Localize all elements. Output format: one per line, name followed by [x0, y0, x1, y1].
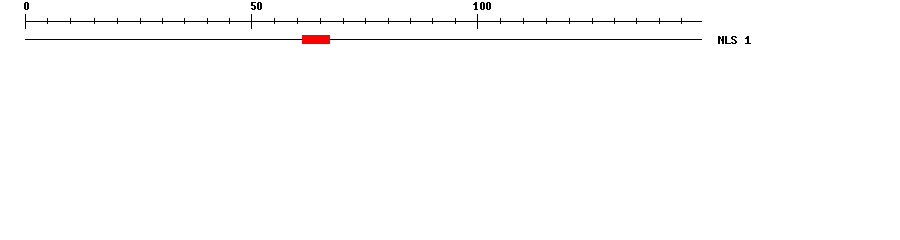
major tick 50 — [251, 14, 253, 29]
minor tick 25 — [140, 18, 142, 24]
minor tick 90 — [432, 18, 434, 24]
minor tick 70 — [343, 18, 345, 24]
minor tick 20 — [117, 18, 119, 24]
minor tick 110 — [523, 18, 525, 24]
minor tick 60 — [297, 18, 299, 24]
minor tick 45 — [229, 18, 231, 24]
sequence line — [25, 39, 702, 41]
minor tick 130 — [614, 18, 616, 24]
minor tick 30 — [162, 18, 164, 24]
minor tick 145 — [681, 18, 683, 24]
minor tick 115 — [546, 18, 548, 24]
minor tick 80 — [388, 18, 390, 24]
minor tick 15 — [94, 18, 96, 24]
minor tick 85 — [410, 18, 412, 24]
feature label NLS 1 — [718, 36, 751, 44]
major tick 100 — [477, 14, 479, 29]
feature box NLS 1 — [302, 35, 330, 44]
ruler label 100 — [473, 2, 491, 10]
minor tick 95 — [455, 18, 457, 24]
minor tick 5 — [47, 18, 49, 24]
minor tick 55 — [274, 18, 276, 24]
minor tick 135 — [636, 18, 638, 24]
minor tick 105 — [500, 18, 502, 24]
major tick 0 — [25, 14, 27, 29]
minor tick 75 — [365, 18, 367, 24]
minor tick 125 — [592, 18, 594, 24]
ruler line — [25, 21, 702, 23]
minor tick 40 — [207, 18, 209, 24]
minor tick 10 — [70, 18, 72, 24]
minor tick 35 — [184, 18, 186, 24]
ruler label 50 — [251, 2, 262, 10]
ruler label 0 — [24, 2, 29, 10]
minor tick 140 — [659, 18, 661, 24]
minor tick 120 — [569, 18, 571, 24]
minor tick 65 — [320, 18, 322, 24]
